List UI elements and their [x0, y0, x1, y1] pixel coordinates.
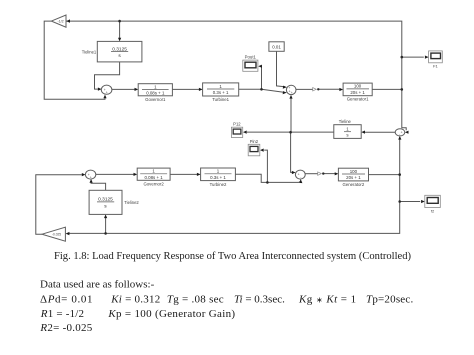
- svg-text:Turbine1: Turbine1: [212, 97, 229, 102]
- svg-text:Tieline2: Tieline2: [124, 200, 139, 205]
- svg-text:Generator1: Generator1: [347, 97, 369, 102]
- svg-text:20s + 1: 20s + 1: [350, 90, 365, 95]
- svg-text:100: 100: [350, 169, 358, 174]
- svg-text:0.08s + 1: 0.08s + 1: [146, 90, 165, 95]
- svg-text:-: -: [300, 175, 301, 179]
- svg-text:F1: F1: [433, 63, 438, 68]
- svg-text:Ki = 0.312: Ki = 0.312: [110, 294, 160, 306]
- svg-text:Generator2: Generator2: [343, 182, 365, 187]
- svg-text:Kg ∗ Kt = 1: Kg ∗ Kt = 1: [298, 294, 357, 306]
- svg-text:Turbine2: Turbine2: [210, 182, 227, 187]
- svg-text:Governor2: Governor2: [143, 182, 164, 187]
- svg-text:Kp = 100 (Generator Gain): Kp = 100 (Generator Gain): [107, 308, 235, 320]
- svg-text:-: -: [399, 132, 400, 136]
- svg-text:Fig. 1.8: Load Frequency Respo: Fig. 1.8: Load Frequency Response of Two…: [54, 251, 411, 262]
- svg-text:ΔPd= 0.01: ΔPd= 0.01: [40, 294, 93, 306]
- svg-text:R1 = -1/2: R1 = -1/2: [40, 308, 84, 320]
- svg-text:-0.025: -0.025: [52, 233, 61, 237]
- svg-text:P12: P12: [233, 122, 241, 127]
- svg-text:+: +: [291, 91, 293, 95]
- svg-text:f2: f2: [431, 208, 435, 213]
- svg-text:0.3s + 1: 0.3s + 1: [213, 90, 229, 95]
- svg-text:Pout1: Pout1: [245, 54, 257, 59]
- svg-text:Governor1: Governor1: [145, 97, 166, 102]
- svg-text:0.08s + 1: 0.08s + 1: [145, 175, 164, 180]
- svg-text:0.01: 0.01: [272, 44, 281, 49]
- svg-text:R2= -0.025: R2= -0.025: [39, 322, 92, 334]
- svg-text:+: +: [90, 175, 92, 179]
- svg-text:Data used are as follows:-: Data used are as follows:-: [40, 278, 155, 290]
- svg-text:+: +: [401, 130, 403, 134]
- svg-text:100: 100: [354, 84, 362, 89]
- svg-text:Tieline: Tieline: [339, 119, 352, 124]
- svg-text:0.3s + 1: 0.3s + 1: [210, 175, 226, 180]
- svg-text:Tieline1: Tieline1: [82, 50, 97, 55]
- svg-text:Pin2: Pin2: [250, 139, 259, 144]
- svg-text:-1/2: -1/2: [57, 20, 63, 24]
- svg-text:Ti = 0.3sec.: Ti = 0.3sec.: [234, 294, 285, 306]
- svg-text:Tp=20sec.: Tp=20sec.: [366, 294, 413, 306]
- svg-text:+: +: [106, 90, 108, 94]
- svg-text:20s + 1: 20s + 1: [346, 175, 361, 180]
- svg-text:Tg = .08 sec: Tg = .08 sec: [167, 294, 224, 306]
